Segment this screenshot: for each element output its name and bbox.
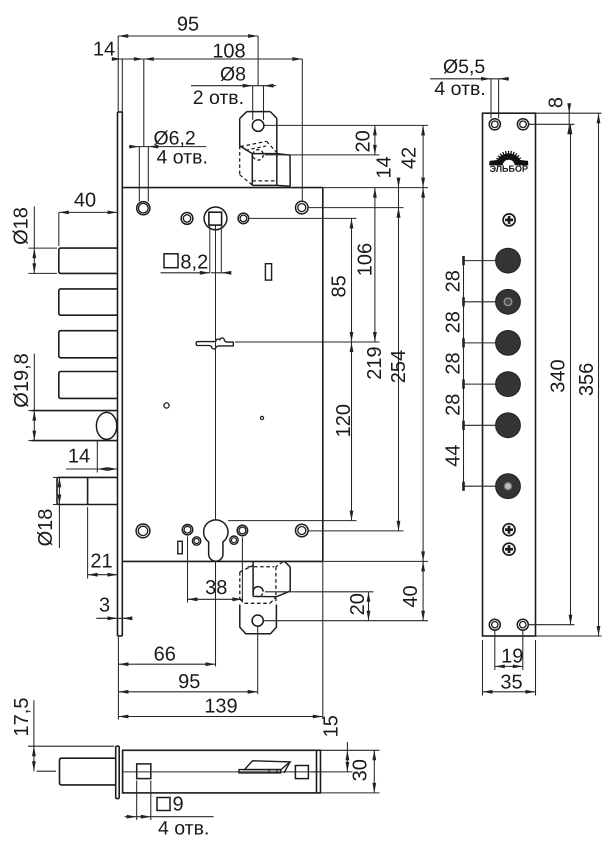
svg-text:66: 66 — [154, 643, 176, 665]
svg-text:356: 356 — [576, 363, 598, 396]
svg-text:3: 3 — [99, 594, 110, 616]
svg-text:44: 44 — [442, 445, 464, 467]
svg-text:108: 108 — [212, 40, 245, 62]
svg-text:21: 21 — [90, 550, 112, 572]
svg-text:4 отв.: 4 отв. — [434, 78, 485, 100]
svg-text:Ø18: Ø18 — [35, 509, 57, 547]
svg-text:15: 15 — [321, 715, 343, 737]
svg-text:219: 219 — [364, 346, 386, 379]
svg-text:95: 95 — [178, 671, 200, 693]
svg-text:14: 14 — [93, 38, 115, 60]
svg-text:28: 28 — [442, 311, 464, 333]
svg-text:85: 85 — [329, 275, 351, 297]
svg-text:ЭЛЬБОР: ЭЛЬБОР — [490, 164, 528, 174]
svg-text:40: 40 — [400, 585, 422, 607]
svg-text:340: 340 — [547, 359, 569, 392]
svg-text:Ø8: Ø8 — [220, 63, 246, 85]
svg-text:35: 35 — [500, 671, 522, 693]
svg-text:139: 139 — [204, 695, 237, 717]
svg-text:Ø5,5: Ø5,5 — [443, 56, 485, 78]
svg-text:8,2: 8,2 — [180, 251, 208, 273]
svg-text:14: 14 — [68, 445, 90, 467]
svg-text:28: 28 — [442, 394, 464, 416]
svg-text:120: 120 — [333, 404, 355, 437]
svg-text:14: 14 — [374, 156, 396, 178]
svg-text:95: 95 — [177, 13, 199, 35]
svg-text:4 отв.: 4 отв. — [158, 817, 209, 839]
svg-text:28: 28 — [442, 352, 464, 374]
svg-text:20: 20 — [353, 130, 375, 152]
svg-text:40: 40 — [74, 189, 96, 211]
svg-text:42: 42 — [399, 147, 421, 169]
svg-text:2 отв.: 2 отв. — [193, 87, 244, 109]
svg-text:30: 30 — [349, 759, 371, 781]
svg-text:254: 254 — [388, 350, 410, 383]
svg-text:38: 38 — [205, 577, 227, 599]
svg-text:9: 9 — [172, 793, 183, 815]
svg-text:20: 20 — [347, 593, 369, 615]
svg-text:Ø19,8: Ø19,8 — [11, 353, 33, 407]
svg-text:17,5: 17,5 — [11, 698, 33, 737]
svg-text:4 отв.: 4 отв. — [156, 146, 207, 168]
svg-text:106: 106 — [355, 243, 377, 276]
svg-text:Ø18: Ø18 — [11, 207, 33, 245]
svg-text:8: 8 — [546, 97, 568, 108]
svg-text:19: 19 — [501, 645, 523, 667]
svg-text:28: 28 — [442, 270, 464, 292]
